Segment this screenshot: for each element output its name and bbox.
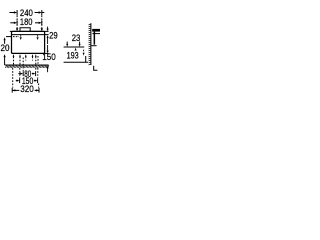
svg-text:23: 23: [72, 33, 81, 44]
svg-text:29: 29: [49, 30, 58, 41]
svg-text:180: 180: [20, 17, 33, 28]
svg-text:193: 193: [67, 51, 79, 62]
svg-text:320: 320: [20, 84, 34, 95]
svg-text:20: 20: [1, 43, 10, 54]
svg-text:150: 150: [42, 52, 56, 63]
